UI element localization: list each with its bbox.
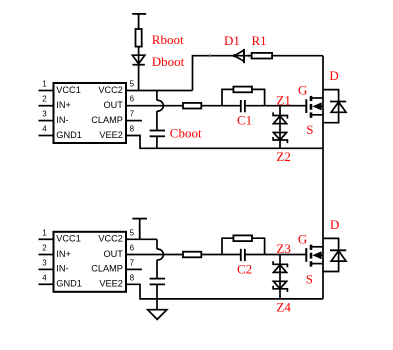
resistor Rboot [136, 29, 142, 47]
U2 pin numbers left [42, 228, 47, 282]
zener Z1 [273, 112, 287, 123]
svg-text:3: 3 [42, 258, 47, 267]
junction tick [209, 54, 211, 59]
svg-text:4: 4 [42, 273, 47, 282]
diode Dboot [132, 55, 144, 64]
U2 pin labels left [56, 234, 82, 289]
svg-text:VEE2: VEE2 [99, 279, 123, 289]
diode D1 [233, 49, 244, 63]
svg-text:6: 6 [130, 95, 135, 104]
resistor gate R top [183, 103, 201, 109]
svg-text:8: 8 [130, 125, 135, 134]
svg-text:G: G [298, 232, 307, 247]
svg-text:C2: C2 [237, 261, 252, 276]
ground [148, 310, 167, 320]
svg-text:Z1: Z1 [276, 93, 290, 108]
U1 pin labels right [91, 85, 123, 140]
svg-text:S: S [306, 122, 313, 137]
transistor Q1 body arrow [312, 102, 323, 110]
wire pin7 CLAMP stub [126, 120, 142, 122]
wire U2 pin8 VEE2 [126, 284, 323, 299]
transistor Q2 gate bar [305, 248, 307, 262]
zener Z4 [273, 281, 287, 292]
svg-text:1: 1 [42, 80, 47, 89]
wire RC loop bottom [222, 238, 265, 254]
wire OUT2 line right [245, 254, 306, 256]
svg-text:OUT: OUT [103, 249, 123, 259]
transistor Q1 channel [310, 96, 313, 118]
power rail top bar [132, 14, 146, 29]
svg-text:Cboot: Cboot [170, 126, 202, 141]
transistor Q1 gate bar [305, 99, 307, 113]
transistor Q1 source lead [311, 114, 323, 116]
wire zener branch bottom [279, 255, 281, 299]
svg-text:Z4: Z4 [276, 299, 291, 314]
svg-text:VEE2: VEE2 [99, 130, 123, 140]
wire pin5 VCC2 node [126, 90, 193, 92]
svg-text:GND1: GND1 [56, 130, 82, 140]
transistor Q2 channel [310, 245, 313, 267]
resistor RC top [233, 87, 252, 93]
svg-text:CLAMP: CLAMP [91, 115, 123, 125]
svg-text:S: S [306, 272, 313, 287]
wire Cboot branch with hop [157, 91, 163, 131]
capacitor C1 [241, 100, 245, 112]
zener Z2 [273, 133, 287, 144]
transistor Q1 drain lead [311, 97, 323, 99]
U1 pin labels left [56, 85, 82, 140]
svg-text:5: 5 [130, 80, 135, 89]
gate driver U1 body [54, 83, 127, 143]
U2 pin labels right [91, 234, 123, 289]
wire OUT2 line left [126, 254, 241, 256]
svg-text:VCC2: VCC2 [98, 85, 123, 95]
svg-text:Rboot: Rboot [152, 32, 184, 47]
wire U2 pin5 VCC2 [126, 238, 157, 240]
wire VCC2 riser to D1 [193, 56, 234, 91]
svg-text:IN+: IN+ [56, 100, 71, 110]
svg-text:Z3: Z3 [276, 241, 290, 256]
U1 pin numbers left [42, 80, 47, 134]
svg-text:7: 7 [130, 258, 135, 267]
svg-text:D: D [329, 68, 338, 83]
svg-text:VCC1: VCC1 [56, 85, 81, 95]
capacitor C bypass bottom [150, 279, 165, 285]
wire cap2 to ground line [156, 284, 158, 299]
svg-text:4: 4 [42, 125, 47, 134]
wire drain bus vertical [322, 56, 324, 299]
wire U2 pin7 CLAMP stub [126, 268, 142, 270]
svg-text:CLAMP: CLAMP [91, 264, 123, 274]
body diode Q2 [323, 238, 346, 271]
wire Dboot to VCC2 node [138, 65, 140, 92]
svg-text:D1: D1 [224, 33, 240, 48]
svg-text:OUT: OUT [103, 100, 123, 110]
wire pin8 VEE2 [126, 136, 323, 149]
wire OUT line left [126, 105, 241, 107]
gate driver U2 body [54, 232, 127, 292]
U1 pin numbers right [130, 80, 135, 134]
capacitor Cboot [150, 131, 165, 137]
wire Rboot to Dboot [138, 47, 140, 65]
svg-text:C1: C1 [237, 113, 252, 128]
svg-text:R1: R1 [252, 33, 267, 48]
svg-text:IN-: IN- [56, 115, 68, 125]
capacitor C2 [241, 249, 245, 261]
resistor RC bottom [233, 235, 252, 241]
svg-text:IN+: IN+ [56, 249, 71, 259]
wire cap2 branch with hop [157, 239, 163, 278]
svg-text:1: 1 [42, 228, 47, 237]
svg-text:D: D [330, 217, 339, 232]
resistor gate R bottom [183, 252, 201, 258]
svg-text:VCC1: VCC1 [56, 234, 81, 244]
U2 pin numbers right [130, 228, 135, 282]
svg-text:VCC2: VCC2 [98, 234, 123, 244]
svg-text:GND1: GND1 [56, 279, 82, 289]
svg-text:5: 5 [130, 228, 135, 237]
svg-text:3: 3 [42, 110, 47, 119]
svg-text:Dboot: Dboot [152, 54, 185, 69]
svg-text:Z2: Z2 [276, 149, 290, 164]
U1 pin 1 VCC1 stub [39, 91, 54, 136]
svg-text:2: 2 [42, 95, 47, 104]
zener Z3 [273, 261, 287, 272]
svg-text:G: G [298, 83, 307, 98]
wire Cboot to VEE2 line [156, 136, 158, 148]
transistor Q2 source lead [311, 263, 323, 265]
wire D1 to R1 to drain [234, 55, 323, 57]
wire ground stub [156, 299, 158, 310]
wire RC loop top [222, 89, 265, 105]
wire OUT line right [245, 105, 306, 107]
transistor Q2 drain lead [311, 246, 323, 248]
U2 pin stubs left [39, 239, 54, 284]
svg-text:6: 6 [130, 244, 135, 253]
svg-text:7: 7 [130, 110, 135, 119]
power rail bottom bar [132, 219, 147, 240]
svg-text:IN-: IN- [56, 264, 68, 274]
wire zener branch top [279, 106, 281, 149]
resistor R1 [252, 53, 273, 59]
transistor Q2 body arrow [312, 251, 323, 259]
svg-text:8: 8 [130, 273, 135, 282]
body diode Q1 [323, 90, 346, 123]
svg-text:2: 2 [42, 244, 47, 253]
